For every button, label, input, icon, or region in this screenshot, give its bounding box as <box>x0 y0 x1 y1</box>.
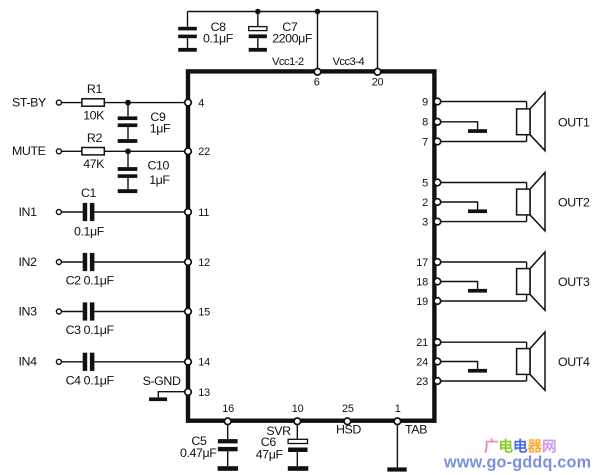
svg-text:25: 25 <box>342 403 354 415</box>
ground (TAB ground bar) <box>387 467 406 471</box>
svg-text:9: 9 <box>422 96 428 108</box>
pin 5 <box>422 177 441 189</box>
svg-text:20: 20 <box>372 77 384 89</box>
wire <box>94 211 186 213</box>
ground (C10 ground bar) <box>118 189 138 193</box>
svg-text:18: 18 <box>416 276 428 288</box>
pin 7 <box>422 136 441 148</box>
pin 15 <box>185 306 210 318</box>
node (junction dot above pin 6) <box>315 9 321 15</box>
wire <box>61 211 82 213</box>
svg-text:S-GND: S-GND <box>143 374 181 388</box>
wire (pin 17 to speaker OUT3 +) <box>434 261 527 263</box>
wire (pin 8 to ground) <box>434 122 478 129</box>
svg-text:HSD: HSD <box>336 423 361 437</box>
svg-text:IN3: IN3 <box>19 304 38 318</box>
ground (bar for pin 8) <box>468 129 487 133</box>
wire (pin 13 to signal ground) <box>158 392 186 398</box>
speaker OUT1 <box>517 92 545 150</box>
ground (S-GND bar) <box>149 397 167 401</box>
capacitor C4 0.1uF (series input cap) <box>66 353 115 388</box>
svg-text:1μF: 1μF <box>150 121 171 135</box>
node (junction R2/C10) <box>125 148 131 154</box>
svg-text:6: 6 <box>314 77 320 89</box>
svg-text:10K: 10K <box>83 108 105 122</box>
svg-text:R1: R1 <box>87 82 103 96</box>
svg-text:C2 0.1μF: C2 0.1μF <box>66 274 115 288</box>
svg-text:Vcc1-2: Vcc1-2 <box>272 56 304 68</box>
node IN4 terminal <box>19 355 62 369</box>
pin 1 TAB <box>394 403 427 437</box>
svg-text:1: 1 <box>395 403 401 415</box>
pin 22 <box>185 146 210 158</box>
wire <box>61 361 82 363</box>
ground (bar for pin 18) <box>468 289 487 293</box>
svg-text:OUT3: OUT3 <box>558 275 590 289</box>
wire (pin 7 to speaker OUT1 -) <box>434 141 527 143</box>
capacitor C10 1uF <box>118 151 171 189</box>
svg-text:47μF: 47μF <box>256 447 284 461</box>
resistor R2 47K <box>82 131 105 171</box>
pin 23 <box>416 376 440 388</box>
svg-text:C1: C1 <box>81 186 97 200</box>
capacitor C9 1uF <box>118 103 171 140</box>
wire (pin 23 to speaker OUT4 -) <box>434 380 527 382</box>
svg-text:IN1: IN1 <box>19 205 38 219</box>
wire <box>94 261 186 263</box>
capacitor C7 2200uF (polarized) <box>249 12 267 48</box>
svg-text:OUT2: OUT2 <box>558 196 590 210</box>
pin 24 <box>416 356 440 368</box>
svg-text:7: 7 <box>422 136 428 148</box>
svg-text:2: 2 <box>422 197 428 209</box>
wire (pin 9 to speaker OUT1 +) <box>434 101 527 103</box>
wire (top supply rail) <box>188 11 378 13</box>
node (junction dot at C7 top) <box>255 9 261 15</box>
wire <box>104 150 186 152</box>
svg-text:R2: R2 <box>87 131 103 145</box>
pin 25 HSD <box>336 403 361 437</box>
svg-text:10: 10 <box>292 403 304 415</box>
node MUTE terminal <box>12 144 61 158</box>
capacitor C3 0.1uF (series input cap) <box>66 302 115 337</box>
resistor R1 10K <box>82 82 105 122</box>
op-amp U1 (power amplifier IC body) <box>188 71 434 420</box>
speaker OUT3 <box>517 252 545 310</box>
pin 4 <box>185 98 205 110</box>
wire (pin 18 to ground) <box>434 282 478 289</box>
svg-text:ST-BY: ST-BY <box>12 95 46 109</box>
pin 14 <box>185 357 210 369</box>
ground (C9 ground bar) <box>118 139 138 143</box>
capacitor C6 47uF (polarized) <box>256 425 308 467</box>
svg-text:22: 22 <box>198 146 210 158</box>
wire (pin 19 to speaker OUT3 -) <box>434 300 527 302</box>
svg-text:C3 0.1μF: C3 0.1μF <box>66 323 115 337</box>
pin 18 <box>416 276 440 288</box>
svg-text:19: 19 <box>416 296 428 308</box>
svg-text:OUT1: OUT1 <box>558 115 590 129</box>
wire (drop to pin 20 Vcc3-4) <box>377 12 379 72</box>
pin 17 <box>416 257 440 269</box>
pin 12 <box>185 257 210 269</box>
ground (C5 ground bar) <box>218 466 239 471</box>
pin 21 <box>416 337 440 349</box>
pin 11 <box>185 207 210 219</box>
wire <box>61 311 82 313</box>
wire <box>104 102 186 104</box>
svg-text:16: 16 <box>222 403 234 415</box>
wire <box>61 261 82 263</box>
svg-text:2200μF: 2200μF <box>272 32 313 46</box>
svg-text:23: 23 <box>416 376 428 388</box>
wire (pin 2 to ground) <box>434 202 478 209</box>
svg-text:0.1μF: 0.1μF <box>203 32 234 46</box>
svg-text:3: 3 <box>422 216 428 228</box>
pin 20 <box>372 69 384 89</box>
ground (bar for pin 2) <box>468 209 487 213</box>
svg-text:12: 12 <box>198 257 210 269</box>
ground (C7 ground bar) <box>249 48 267 52</box>
svg-text:24: 24 <box>416 356 428 368</box>
pin 19 <box>416 296 440 308</box>
svg-text:MUTE: MUTE <box>12 144 46 158</box>
svg-text:www.go-gddq.com: www.go-gddq.com <box>443 454 591 472</box>
pin 8 <box>422 117 441 129</box>
node IN1 terminal <box>19 205 62 219</box>
capacitor C1 0.1uF (series input cap) <box>74 186 105 239</box>
wire (speaker OUT3 back bar) <box>526 262 528 301</box>
pin 6 <box>314 69 321 89</box>
svg-text:TAB: TAB <box>405 423 427 437</box>
svg-text:1μF: 1μF <box>149 173 170 187</box>
wire (pin 21 to speaker OUT4 +) <box>434 341 527 343</box>
pin 13 <box>185 387 210 399</box>
svg-text:11: 11 <box>198 207 209 219</box>
svg-text:8: 8 <box>422 117 428 129</box>
node IN3 terminal <box>19 304 62 318</box>
wire (speaker OUT4 back bar) <box>526 342 528 381</box>
svg-text:Vcc3-4: Vcc3-4 <box>333 56 365 68</box>
svg-text:IN4: IN4 <box>19 355 38 369</box>
wire (pin 5 to speaker OUT2 +) <box>434 182 527 184</box>
speaker OUT2 <box>517 173 545 231</box>
capacitor C2 0.1uF (series input cap) <box>66 253 115 288</box>
ground (C6 ground bar) <box>288 466 309 471</box>
svg-text:0.47μF: 0.47μF <box>180 446 217 460</box>
svg-text:13: 13 <box>198 387 210 399</box>
pin 10 SVR <box>266 403 303 438</box>
wire (drop to pin 6 Vcc1-2) <box>317 12 319 72</box>
node (junction R1/C9) <box>125 100 131 106</box>
pin 9 <box>422 96 441 108</box>
speaker OUT4 <box>517 332 545 390</box>
svg-text:17: 17 <box>416 257 428 269</box>
wire (speaker OUT1 back bar) <box>526 102 528 142</box>
pin 16 <box>222 403 234 425</box>
node IN2 terminal <box>19 255 62 269</box>
wire (TAB to ground) <box>396 425 398 468</box>
capacitor C5 0.47uF <box>180 425 238 467</box>
wire <box>94 361 186 363</box>
wire (pin 24 to ground) <box>434 362 478 369</box>
capacitor C8 0.1uF <box>178 12 197 48</box>
svg-text:5: 5 <box>422 177 428 189</box>
wire <box>61 102 82 104</box>
pin 2 <box>422 197 441 209</box>
ground (C8 ground bar) <box>178 48 197 52</box>
svg-text:C4 0.1μF: C4 0.1μF <box>66 373 115 387</box>
svg-text:14: 14 <box>198 357 210 369</box>
svg-text:21: 21 <box>416 337 428 349</box>
svg-text:15: 15 <box>198 306 210 318</box>
svg-text:4: 4 <box>198 98 204 110</box>
node ST-BY terminal <box>12 95 61 109</box>
svg-text:IN2: IN2 <box>19 255 38 269</box>
svg-text:C10: C10 <box>148 158 170 172</box>
wire <box>94 311 186 313</box>
wire (pin 3 to speaker OUT2 -) <box>434 221 527 223</box>
pin 3 <box>422 216 441 228</box>
ground (bar for pin 24) <box>468 369 487 373</box>
svg-text:47K: 47K <box>83 157 105 171</box>
wire <box>61 150 82 152</box>
svg-text:0.1μF: 0.1μF <box>74 224 105 238</box>
wire (speaker OUT2 back bar) <box>526 183 528 222</box>
svg-text:OUT4: OUT4 <box>558 355 590 369</box>
